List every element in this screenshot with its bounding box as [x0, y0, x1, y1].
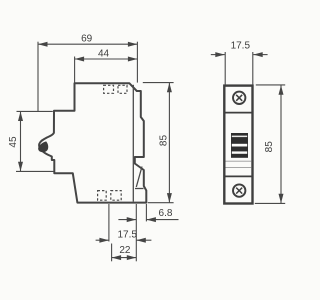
svg-text:6.8: 6.8	[159, 208, 173, 219]
svg-text:85: 85	[264, 141, 275, 153]
svg-text:45: 45	[8, 136, 19, 148]
svg-text:44: 44	[98, 48, 110, 59]
svg-text:17.5: 17.5	[117, 230, 137, 241]
svg-text:17.5: 17.5	[231, 41, 251, 52]
svg-text:69: 69	[81, 34, 93, 45]
svg-text:85: 85	[159, 135, 170, 147]
svg-text:22: 22	[119, 245, 131, 256]
